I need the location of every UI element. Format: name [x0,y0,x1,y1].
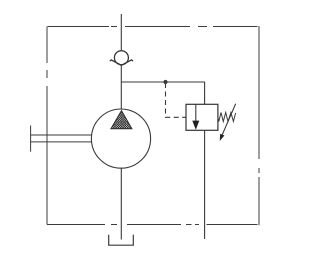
wire: relief valve drain to tank [204,130,206,239]
pump P1 flow triangle (hatched) [111,111,132,129]
shaft end cap [30,126,32,152]
wire: pump suction line [120,168,122,240]
wire: check valve to pump inlet of line [120,65,122,110]
wire: pressure branch to relief valve [121,82,204,104]
wire: pressure port P stub [120,14,122,51]
relief valve flow line [195,104,197,122]
junction node [163,80,167,84]
drive shaft (double line) [31,135,92,142]
enclosure (power unit boundary, dash-dot box) [47,26,259,225]
check valve V1 seat [110,60,133,65]
pump P1 circle [91,109,150,168]
relief valve RV1 body [186,104,218,130]
relief valve adjustment arrow [222,104,235,135]
check valve V1 (ball) [114,51,128,65]
relief valve spring [218,113,236,122]
relief valve flow arrowhead [192,121,199,130]
pilot line (dashed) to relief valve [166,83,187,117]
tank T1 [109,235,134,246]
